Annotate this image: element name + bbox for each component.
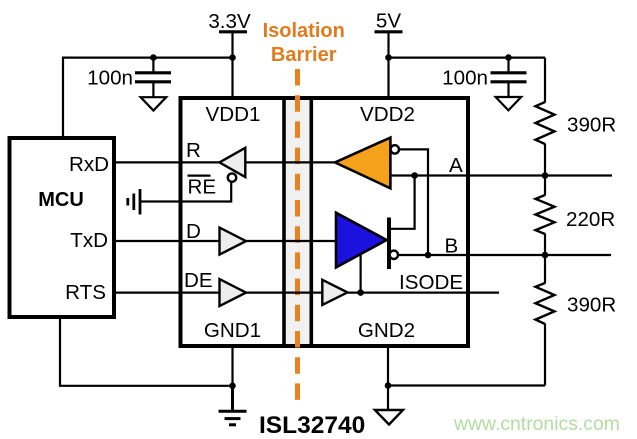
capacitor C1 — [135, 58, 171, 97]
isolation barrier gray band — [286, 98, 309, 346]
svg-text:RxD: RxD — [69, 153, 109, 176]
enable bubble RE — [228, 173, 236, 181]
barrier right inner edge — [309, 96, 313, 348]
net B line — [398, 254, 612, 256]
wire RxD to R — [116, 161, 220, 163]
ground (signal) under C2 — [496, 97, 522, 110]
svg-text:B: B — [445, 234, 459, 257]
svg-text:VDD2: VDD2 — [360, 103, 415, 126]
svg-text:ISODE: ISODE — [399, 271, 463, 294]
wire B to R3 — [544, 255, 546, 284]
node B junction internal — [425, 252, 432, 259]
wire bubble to B net — [399, 149, 428, 255]
svg-text:220R: 220R — [566, 208, 615, 231]
supply 5V bar — [375, 30, 403, 33]
svg-text:Barrier: Barrier — [271, 44, 337, 66]
wire 5V stem to VDD2 — [387, 32, 389, 98]
node junction C1 top — [150, 54, 157, 61]
op-amp receiver (orange) — [335, 138, 390, 189]
svg-text:5V: 5V — [376, 10, 401, 33]
receiver inverting bubble — [391, 145, 399, 153]
wire R3 bottom lead — [544, 324, 546, 386]
wire TxD to D — [116, 240, 220, 242]
wire top-left horizontal — [63, 56, 233, 58]
wire GND1 stub — [231, 346, 233, 386]
node junction 5V — [385, 54, 392, 61]
resistor R1 390R — [536, 102, 555, 144]
svg-text:RTS: RTS — [65, 281, 106, 304]
ground (earth) GND1 — [219, 386, 247, 425]
wire MCU bottom to ground — [60, 317, 233, 386]
driver inverted output bubble — [390, 251, 398, 259]
MCU box — [10, 138, 115, 317]
svg-text:R: R — [186, 139, 201, 162]
buffer U1C enable — [220, 279, 247, 306]
svg-text:390R: 390R — [567, 114, 616, 137]
wire R2 to B — [544, 234, 546, 256]
wire GND2 to chain bottom — [388, 384, 545, 386]
node A junction chain — [542, 172, 549, 179]
svg-text:RE: RE — [188, 176, 217, 199]
wire top-right horizontal — [389, 56, 546, 58]
wire chain top lead — [544, 58, 546, 103]
buffer U1B driver input — [220, 228, 247, 255]
wire driver enable — [360, 254, 362, 293]
resistor R3 390R — [536, 283, 555, 324]
barrier left inner edge — [282, 96, 286, 348]
svg-text:www.cntronics.com: www.cntronics.com — [453, 413, 620, 435]
ground (signal) GND2 — [387, 386, 389, 410]
wire bar top to A net — [389, 176, 415, 229]
wire DE across barrier — [246, 292, 322, 294]
node junction 3.3V — [229, 54, 236, 61]
IC box ISL32740 outline — [181, 98, 469, 346]
wire left vertical to MCU top — [62, 57, 64, 138]
wire GND2 stub — [387, 346, 389, 386]
svg-text:D: D — [186, 220, 201, 243]
svg-text:100n: 100n — [87, 67, 133, 90]
op-amp driver (blue) — [336, 213, 387, 268]
svg-text:3.3V: 3.3V — [208, 10, 251, 33]
supply 3.3V bar — [219, 30, 247, 33]
wire RTS to DE — [116, 292, 220, 294]
ground (RE tie) — [128, 189, 140, 215]
svg-text:TxD: TxD — [70, 229, 108, 252]
svg-text:ISL32740: ISL32740 — [259, 412, 365, 439]
buffer ISODE (small) — [322, 280, 347, 305]
wire D across barrier — [246, 240, 336, 242]
wire R1 to A — [544, 144, 546, 176]
svg-text:A: A — [449, 154, 463, 177]
node junction GND1 — [229, 383, 236, 390]
svg-text:MCU: MCU — [38, 189, 84, 211]
node junction ISODE — [357, 289, 364, 296]
wire A to R2 — [544, 176, 546, 196]
capacitor C2 — [491, 58, 527, 97]
svg-text:GND2: GND2 — [358, 319, 415, 342]
wire ISODE line — [348, 292, 500, 294]
ground (signal) under C1 — [141, 97, 167, 110]
svg-text:DE: DE — [184, 269, 213, 292]
resistor R2 220R — [536, 195, 555, 234]
svg-text:Isolation: Isolation — [263, 20, 345, 42]
node junction GND2 — [385, 382, 392, 389]
svg-text:VDD1: VDD1 — [206, 103, 261, 126]
net A line — [390, 174, 612, 176]
wire R across barrier — [245, 161, 335, 163]
svg-text:GND1: GND1 — [204, 319, 261, 342]
svg-text:390R: 390R — [567, 294, 616, 317]
isolation barrier dashed line — [295, 69, 300, 401]
wire RE enable — [140, 182, 231, 202]
wire 3.3V stem to VDD1 — [231, 32, 233, 98]
buffer U1A receiver output — [219, 148, 245, 177]
pin label RE with overline — [188, 175, 211, 177]
isolation barrier label — [263, 20, 345, 66]
svg-text:100n: 100n — [442, 67, 488, 90]
driver output bar — [387, 218, 391, 270]
node B junction chain — [542, 252, 549, 259]
node junction C2 top — [505, 54, 512, 61]
node A junction internal — [411, 172, 418, 179]
